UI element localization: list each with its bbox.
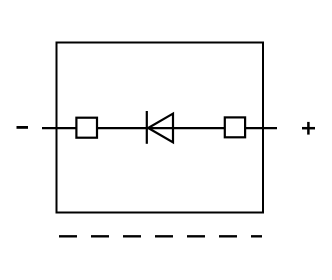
module outline box (57, 43, 264, 213)
diode D1 (147, 111, 173, 144)
node minus (-) label (17, 126, 29, 129)
dashed DIN-rail line (59, 235, 262, 237)
wire (42, 127, 277, 129)
terminal clamp right (225, 117, 245, 137)
terminal clamp left (76, 118, 97, 138)
node plus (+) label (302, 122, 315, 135)
